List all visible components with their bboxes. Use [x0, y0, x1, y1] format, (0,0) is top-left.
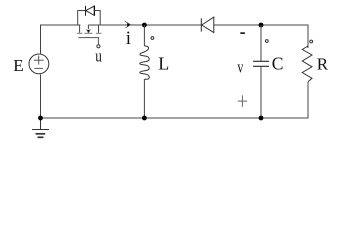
wire top rail left (E top to switch drain) [41, 25, 81, 54]
label minus (output polarity) [240, 32, 245, 34]
transistor Q1 drain lead [79, 25, 81, 33]
wire switch source rail to diode D cathode [88, 24, 201, 26]
anti-parallel diode triangle [86, 6, 95, 15]
voltage source plus sign [34, 56, 44, 65]
resistor marker circle [310, 40, 313, 43]
svg-text:u: u [95, 47, 102, 66]
anti-parallel diode of switch: left leg [78, 11, 86, 26]
capacitor C top lead [260, 25, 262, 61]
voltage source E circle [29, 54, 49, 74]
ground [32, 118, 49, 137]
inductor L top lead [143, 25, 145, 46]
wire bottom rail [41, 75, 309, 119]
gate terminal circle [97, 45, 100, 48]
transistor Q1 body lead with arrow [87, 25, 89, 29]
junction dot at capacitor bottom [259, 116, 264, 121]
label plus (output polarity) [238, 95, 247, 107]
junction dot E bottom [38, 116, 43, 121]
capacitor C bottom lead [260, 66, 262, 118]
anti-parallel diode cathode bar [85, 6, 87, 16]
svg-text:L: L [158, 54, 169, 74]
anti-parallel diode right leg [94, 11, 100, 26]
wire diode D anode to top-right corner, down to resistor [214, 25, 308, 48]
resistor R zigzag [302, 46, 312, 82]
transistor Q1 channel segments [77, 32, 101, 34]
diode D cathode bar [200, 18, 202, 31]
diode D triangle [202, 17, 214, 32]
inductor L bottom lead [143, 79, 145, 118]
junction dot at capacitor top [259, 23, 264, 28]
svg-text:C: C [272, 54, 284, 74]
svg-text:E: E [13, 56, 23, 75]
capacitor C plates [253, 61, 269, 66]
inductor L coil [140, 46, 149, 79]
transistor Q1 source lead [98, 25, 100, 33]
voltage source minus sign [34, 67, 43, 69]
transistor Q1 gate bar and gate lead [78, 38, 98, 45]
junction dot at inductor top [142, 23, 147, 28]
svg-text:v: v [237, 58, 244, 77]
junction dot at inductor bottom [142, 116, 147, 121]
current arrow i [127, 23, 130, 27]
svg-text:R: R [317, 54, 329, 73]
capacitor marker circle [265, 40, 268, 43]
inductor winding marker circle [151, 37, 154, 40]
svg-text:i: i [126, 28, 131, 49]
